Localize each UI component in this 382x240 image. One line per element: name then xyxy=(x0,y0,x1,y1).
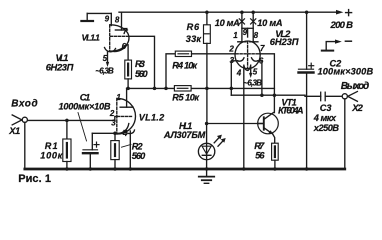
svg-text:2: 2 xyxy=(228,44,234,53)
capacitor C1 (electrolytic) xyxy=(91,133,93,150)
svg-text:100мк×300В: 100мк×300В xyxy=(318,66,374,76)
node dot anode lead 8 on rail xyxy=(251,10,255,14)
svg-text:4: 4 xyxy=(122,129,128,138)
tube VL2 anode leads xyxy=(241,12,243,42)
leader line R2 xyxy=(122,144,132,147)
svg-text:~6,3В: ~6,3В xyxy=(243,78,262,87)
resistor R3 xyxy=(125,60,132,79)
svg-text:C3: C3 xyxy=(320,103,332,113)
svg-text:7: 7 xyxy=(260,44,265,53)
tube VL1.2 cathode hook xyxy=(120,124,129,134)
wire bottom ground rail xyxy=(25,168,345,171)
tube VL2 cathode hooks xyxy=(238,58,244,61)
svg-text:7: 7 xyxy=(123,27,128,36)
node dot R1 rail xyxy=(65,167,68,170)
svg-text:~6,3В: ~6,3В xyxy=(95,66,114,75)
connector X1 xyxy=(22,117,27,122)
tube VL2 anode plates xyxy=(238,41,246,43)
resistor R6 xyxy=(206,12,208,25)
wire cathode VL1.1 to R3 xyxy=(127,45,128,60)
svg-text:560: 560 xyxy=(132,151,146,161)
svg-text:R6: R6 xyxy=(187,22,200,32)
tube VL1.2 grid (dashed) xyxy=(117,115,132,117)
svg-text:5: 5 xyxy=(253,67,258,76)
svg-text:10 мА: 10 мА xyxy=(215,18,240,28)
svg-text:X2: X2 xyxy=(351,102,363,113)
node dot pin4 VL1.2 rail xyxy=(129,167,132,170)
wire cathode VL1.2 xyxy=(92,132,121,134)
svg-text:100к: 100к xyxy=(40,150,63,160)
svg-text:Вход: Вход xyxy=(11,98,38,109)
node dot R7 rail xyxy=(273,167,276,170)
svg-text:X1: X1 xyxy=(8,125,20,136)
resistor R7 xyxy=(272,143,279,160)
svg-text:6Н23П: 6Н23П xyxy=(46,62,74,73)
wire output node (lower horizontal wire) xyxy=(231,95,320,96)
wire input to grid VL1.2 xyxy=(27,116,117,120)
resistor R5 xyxy=(174,86,191,91)
resistor R1 xyxy=(66,120,68,139)
svg-text:9: 9 xyxy=(243,28,248,37)
wire base VT1 xyxy=(206,123,263,125)
svg-text:R3: R3 xyxy=(135,59,145,69)
tube VL2 shield pin 9 tie bar xyxy=(242,27,253,29)
node dot pin4 VL2 rail xyxy=(242,167,245,170)
node dot C2 top rail xyxy=(305,10,309,14)
svg-text:R4 10к: R4 10к xyxy=(172,60,198,70)
pin 8 anode lead VL1.1 xyxy=(121,12,123,30)
resistor R4 xyxy=(166,54,175,89)
tube VL2 envelope xyxy=(235,41,260,69)
svg-text:1000мк×10В: 1000мк×10В xyxy=(59,102,111,112)
svg-text:R5 10к: R5 10к xyxy=(172,93,200,103)
tube VL2 grid (dashed) xyxy=(236,53,259,55)
svg-text:1: 1 xyxy=(233,31,238,40)
svg-text:3: 3 xyxy=(111,119,116,128)
node dot C2 rail xyxy=(305,167,308,170)
wire X1 to ground rail xyxy=(24,122,26,169)
LED HL1 xyxy=(206,124,208,170)
node dot R2 rail xyxy=(113,167,116,170)
svg-text:8: 8 xyxy=(254,31,259,40)
svg-text:56: 56 xyxy=(255,150,265,160)
node dot R3 bottom xyxy=(126,87,130,91)
svg-text:10 мА: 10 мА xyxy=(257,18,282,28)
pin 5 heater lead with arrow xyxy=(107,52,109,62)
svg-text:9: 9 xyxy=(105,14,110,23)
svg-text:Рис. 1: Рис. 1 xyxy=(18,173,51,184)
svg-text:АЛ307БМ: АЛ307БМ xyxy=(163,130,206,140)
wire pin 6 riser xyxy=(258,61,262,95)
node dot pin6 riser bottom xyxy=(260,93,264,97)
svg-text:Выход: Выход xyxy=(341,81,370,92)
node dot grid riser xyxy=(153,87,157,91)
capacitor C2 (electrolytic) xyxy=(306,12,308,69)
pin 9 lead VL1.1 xyxy=(110,13,112,25)
svg-text:4 мкх: 4 мкх xyxy=(313,113,337,123)
node dot anode lead 1 on rail xyxy=(240,10,244,14)
terminal +200V arrow xyxy=(336,10,343,15)
node dot R6 top rail xyxy=(205,10,209,14)
ground top-left xyxy=(81,20,93,22)
svg-text:560: 560 xyxy=(135,69,148,79)
svg-text:6: 6 xyxy=(122,42,127,51)
ground symbol at HL1 xyxy=(206,169,208,176)
svg-text:R1: R1 xyxy=(45,141,58,151)
tube VL1.1 anode plate xyxy=(115,29,127,31)
svg-text:6Н23П: 6Н23П xyxy=(270,36,299,47)
svg-text:8: 8 xyxy=(115,15,120,24)
wire X2 to ground rail xyxy=(344,99,346,169)
svg-text:5: 5 xyxy=(103,54,108,63)
pin 4 lead VL1.2 to ground rail xyxy=(129,131,131,169)
tube VL1.1 grid (dashed) xyxy=(111,35,130,37)
tube VL1.2 anode lead pin 1 xyxy=(126,88,128,107)
tube VL1.2 envelope dashed boundary xyxy=(116,98,118,134)
node dot pin3 riser xyxy=(230,87,234,91)
wire ground to pin 9 xyxy=(87,12,111,14)
tube VL1.2 anode plate xyxy=(120,106,133,108)
resistor R2 xyxy=(114,133,116,140)
wire pin 7 to collector riser xyxy=(259,54,274,113)
node dot R4 riser xyxy=(164,87,168,91)
svg-text:R7: R7 xyxy=(254,141,265,151)
svg-text:VL1.1: VL1.1 xyxy=(82,32,101,42)
label + (supply plus) xyxy=(346,10,352,16)
tube VL1.1 envelope arc xyxy=(111,25,130,51)
capacitor C3 xyxy=(320,92,322,101)
connector X2 xyxy=(342,94,347,99)
LED arrows xyxy=(214,137,219,143)
node dot R6 line xyxy=(205,87,209,91)
tube VL1.2 envelope arc xyxy=(118,98,136,134)
svg-text:33к: 33к xyxy=(186,34,203,44)
tube VL1.1 cathode hook xyxy=(114,45,128,52)
pin 4 lead VL2 to ground rail xyxy=(243,67,245,170)
svg-text:КТ604А: КТ604А xyxy=(278,106,303,116)
tube VL2 shield dashed center line xyxy=(247,41,249,68)
terminal minus of supply xyxy=(326,42,334,50)
measuring cross right xyxy=(251,19,256,24)
wire top supply rail xyxy=(119,11,337,13)
node dot C1 rail xyxy=(89,167,92,170)
wire grid VL1.1 to riser xyxy=(129,36,154,88)
node dot HL1 rail xyxy=(205,167,208,170)
tube VL1.2 heater xyxy=(124,130,135,134)
wire pin 3 riser xyxy=(231,61,237,95)
svg-text:VL1.2: VL1.2 xyxy=(139,112,165,122)
svg-text:4: 4 xyxy=(236,68,242,77)
svg-text:200 В: 200 В xyxy=(330,20,354,31)
node dot R1 top xyxy=(65,119,69,123)
tube VL1.1 envelope dashed boundary xyxy=(109,25,111,51)
node dot collector riser xyxy=(273,93,277,97)
leader line C1 xyxy=(78,113,87,142)
node dot R2 top xyxy=(113,132,117,136)
tube VL2 heater xyxy=(244,65,251,70)
wire anode node (upper horizontal wire) xyxy=(127,87,275,89)
transistor VT1 xyxy=(258,113,279,134)
pin 5 heater lead with arrow xyxy=(250,67,252,74)
svg-text:х250В: х250В xyxy=(313,123,340,133)
measuring cross left xyxy=(239,19,244,24)
node dot HL1 top xyxy=(205,122,209,126)
tube VL1.1 heater xyxy=(105,48,116,52)
